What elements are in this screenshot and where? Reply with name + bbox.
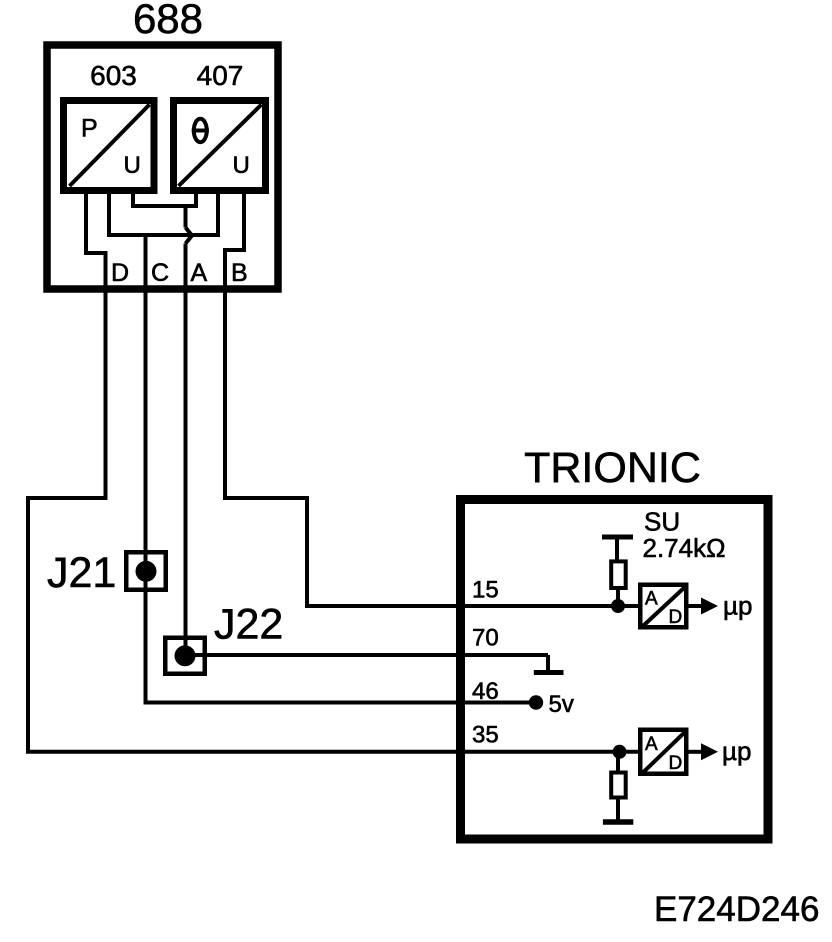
- connector box 688: [47, 45, 278, 289]
- svg-text:µp: µp: [723, 591, 752, 621]
- svg-text:SU: SU: [644, 507, 680, 537]
- arrowhead upper: [701, 598, 718, 615]
- svg-text:70: 70: [472, 625, 499, 652]
- junction J22 dot: [175, 645, 196, 666]
- svg-text:A: A: [645, 589, 658, 610]
- wire crossover hop: [186, 228, 193, 244]
- svg-text:D: D: [111, 259, 129, 287]
- arrowhead lower: [701, 743, 718, 760]
- svg-text:15: 15: [472, 577, 499, 604]
- svg-text:D: D: [669, 753, 683, 774]
- svg-text:P: P: [81, 115, 98, 143]
- ECU box TRIONIC: [461, 500, 769, 840]
- wire pin C branch down to TRIONIC pin 46: [146, 235, 530, 703]
- temperature sensor box 407: [174, 101, 266, 191]
- A/D converter upper: [640, 585, 686, 628]
- ground symbol pin 70: [546, 655, 550, 670]
- wire J22 to TRIONIC pin 70: [185, 653, 548, 657]
- svg-text:35: 35: [472, 722, 499, 749]
- wire A branch upper segment: [184, 206, 188, 228]
- A/D converter lower: [640, 730, 686, 774]
- svg-text:603: 603: [90, 60, 137, 91]
- svg-text:TRIONIC: TRIONIC: [524, 444, 701, 492]
- wire node to pulldown resistor: [616, 752, 620, 772]
- wire resistor to ground: [616, 798, 620, 821]
- svg-text:D: D: [669, 607, 683, 628]
- svg-text:B: B: [231, 259, 248, 287]
- wire A branch down to J22: [184, 244, 188, 656]
- node dot pin 15 net: [611, 599, 625, 613]
- wire pin C net: sensor link to pin C: [109, 191, 218, 235]
- wire supply to resistor: [615, 537, 619, 561]
- svg-text:5v: 5v: [549, 691, 574, 718]
- svg-text:E724D246: E724D246: [654, 890, 819, 929]
- svg-text:J22: J22: [214, 601, 283, 649]
- wire A/D output upper: [689, 604, 704, 608]
- svg-text:C: C: [151, 259, 169, 287]
- svg-text:A: A: [191, 259, 208, 287]
- svg-text:U: U: [124, 152, 141, 179]
- junction J21 dot: [136, 561, 157, 582]
- pressure sensor box 603: [64, 101, 155, 191]
- svg-text:µp: µp: [722, 736, 751, 766]
- svg-text:688: 688: [133, 0, 203, 42]
- supply rail bar SU: [602, 535, 633, 540]
- svg-text:46: 46: [472, 678, 499, 705]
- svg-text:U: U: [233, 152, 250, 179]
- svg-text:407: 407: [197, 60, 244, 91]
- svg-text:J21: J21: [47, 549, 116, 597]
- node dot pin 35 net: [613, 745, 627, 759]
- resistor pulldown body: [611, 773, 626, 798]
- wire pin B net: T-sensor to pin B to TRIONIC pin 15: [225, 191, 638, 606]
- wire pin D net: P-sensor to pin D to TRIONIC pin 35: [28, 191, 638, 752]
- svg-text:A: A: [645, 734, 658, 755]
- wire A/D output lower: [689, 750, 704, 754]
- resistor SU 2.74k body: [611, 561, 626, 588]
- wire resistor to node: [616, 588, 620, 606]
- ground bar lower: [603, 819, 633, 825]
- junction J22 box: [165, 638, 205, 674]
- node dot 5v: [529, 695, 543, 709]
- wire bridge A net between sensors: [133, 191, 196, 206]
- svg-text:2.74kΩ: 2.74kΩ: [643, 533, 726, 563]
- junction J21 box: [126, 552, 166, 590]
